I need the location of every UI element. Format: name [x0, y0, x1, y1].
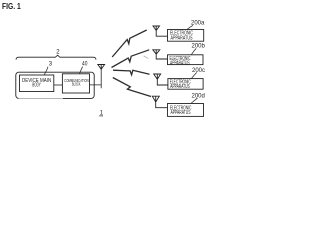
antenna of apparatus 200b	[153, 50, 168, 59]
antenna of apparatus 200a	[153, 26, 168, 36]
leader for 200d	[191, 98, 198, 103]
leader for 40	[80, 67, 83, 74]
faded part of enclosure bottom edge	[19, 97, 64, 99]
svg-text:APPARATUS: APPARATUS	[170, 60, 190, 66]
svg-text:FIG. 1: FIG. 1	[2, 1, 21, 11]
stray scan mark	[144, 56, 149, 59]
svg-text:BLOCK: BLOCK	[72, 82, 81, 87]
svg-text:200b: 200b	[192, 43, 206, 49]
box electronic apparatus 200d	[168, 104, 204, 117]
box electronic apparatus 200a	[168, 30, 204, 42]
rounded enclosure 2	[16, 72, 94, 98]
box device main body	[20, 75, 54, 92]
leader for 200a	[187, 25, 193, 29]
svg-text:APPARATUS: APPARATUS	[170, 84, 190, 90]
box electronic apparatus 200b	[168, 55, 204, 65]
svg-text:200c: 200c	[192, 68, 205, 74]
svg-text:APPARATUS: APPARATUS	[171, 110, 191, 116]
box communication block	[62, 74, 89, 93]
box electronic apparatus 200c	[168, 79, 203, 90]
lightning bolt 3	[113, 70, 150, 75]
leader for 200b	[192, 48, 197, 54]
svg-text:200a: 200a	[191, 21, 205, 27]
wire comm block to antenna	[90, 69, 102, 88]
antenna of apparatus 200c	[154, 74, 168, 85]
leader for 3	[44, 67, 48, 75]
antenna of communication block	[98, 65, 105, 70]
lightning bolt 1	[112, 30, 147, 57]
svg-text:BODY: BODY	[32, 83, 41, 89]
brace for 2	[16, 55, 96, 60]
lightning bolt 4	[113, 78, 151, 97]
svg-text:APPARATUS: APPARATUS	[171, 35, 193, 41]
svg-text:200d: 200d	[192, 93, 205, 99]
leader for 200c	[192, 72, 197, 78]
lightning bolt 2	[112, 50, 150, 68]
antenna of apparatus 200d	[152, 96, 167, 108]
wire between boxes	[54, 84, 63, 86]
